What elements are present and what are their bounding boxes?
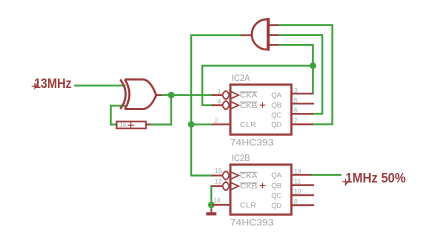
svg-text:CKA: CKA bbox=[240, 172, 258, 180]
svg-text:13MHz: 13MHz bbox=[34, 75, 71, 91]
svg-text:15: 15 bbox=[215, 168, 223, 175]
svg-text:3: 3 bbox=[294, 87, 298, 94]
svg-text:QC: QC bbox=[271, 111, 281, 119]
svg-text:4: 4 bbox=[217, 99, 221, 106]
svg-text:6: 6 bbox=[294, 108, 298, 115]
svg-text:10: 10 bbox=[294, 189, 302, 196]
svg-text:12: 12 bbox=[214, 179, 222, 186]
svg-text:QB: QB bbox=[271, 101, 281, 109]
svg-text:74HC393: 74HC393 bbox=[230, 217, 273, 227]
svg-text:8: 8 bbox=[294, 199, 298, 206]
svg-text:13: 13 bbox=[294, 168, 302, 175]
svg-text:2: 2 bbox=[214, 118, 218, 125]
svg-text:1k: 1k bbox=[119, 122, 127, 129]
svg-text:CKB: CKB bbox=[240, 102, 258, 110]
svg-text:IC2B: IC2B bbox=[232, 153, 251, 163]
svg-text:QB: QB bbox=[271, 182, 281, 190]
svg-text:QD: QD bbox=[271, 121, 281, 129]
svg-text:CLR: CLR bbox=[240, 121, 256, 129]
svg-text:CKB: CKB bbox=[240, 183, 258, 191]
svg-text:QD: QD bbox=[271, 202, 281, 210]
svg-text:1: 1 bbox=[217, 88, 221, 95]
svg-text:11: 11 bbox=[294, 179, 301, 186]
svg-text:IC2A: IC2A bbox=[232, 73, 251, 83]
svg-text:7: 7 bbox=[294, 118, 298, 125]
svg-text:QC: QC bbox=[271, 192, 281, 200]
svg-text:1MHz 50%: 1MHz 50% bbox=[346, 170, 407, 186]
svg-text:14: 14 bbox=[213, 198, 221, 205]
svg-text:CKA: CKA bbox=[240, 92, 258, 100]
svg-text:5: 5 bbox=[294, 97, 298, 104]
svg-text:CLR: CLR bbox=[240, 201, 256, 209]
svg-text:QA: QA bbox=[271, 172, 281, 180]
svg-text:74HC393: 74HC393 bbox=[230, 137, 273, 147]
svg-text:QA: QA bbox=[271, 92, 281, 100]
